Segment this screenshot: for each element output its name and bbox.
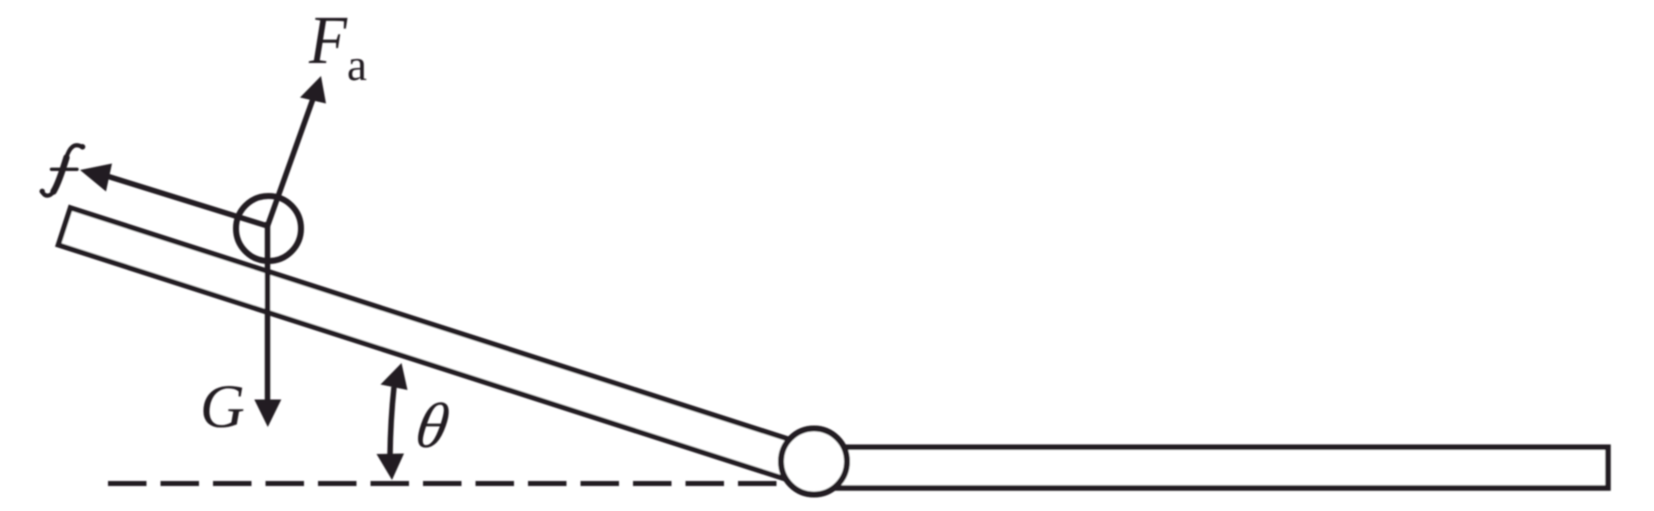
force G: shaft	[265, 222, 271, 403]
pivot circle	[781, 429, 847, 495]
label theta	[418, 402, 449, 447]
angle double arrow shaft	[390, 387, 394, 456]
force G: arrowhead	[254, 400, 281, 428]
force Fa: shaft	[268, 96, 315, 226]
label f	[40, 144, 86, 196]
label F	[309, 18, 348, 63]
label G	[203, 386, 243, 428]
inclined rod	[58, 208, 830, 491]
force Fa: arrowhead	[300, 76, 326, 104]
angle arrow bottom head	[377, 454, 405, 481]
horizontal rod	[814, 447, 1608, 488]
force f: arrowhead	[80, 164, 112, 192]
angle arrow top head	[381, 363, 408, 390]
dashed ground line	[108, 481, 777, 486]
force f: shaft	[100, 174, 268, 226]
ring (object on incline)	[236, 196, 301, 261]
label a (subscript)	[349, 59, 367, 81]
